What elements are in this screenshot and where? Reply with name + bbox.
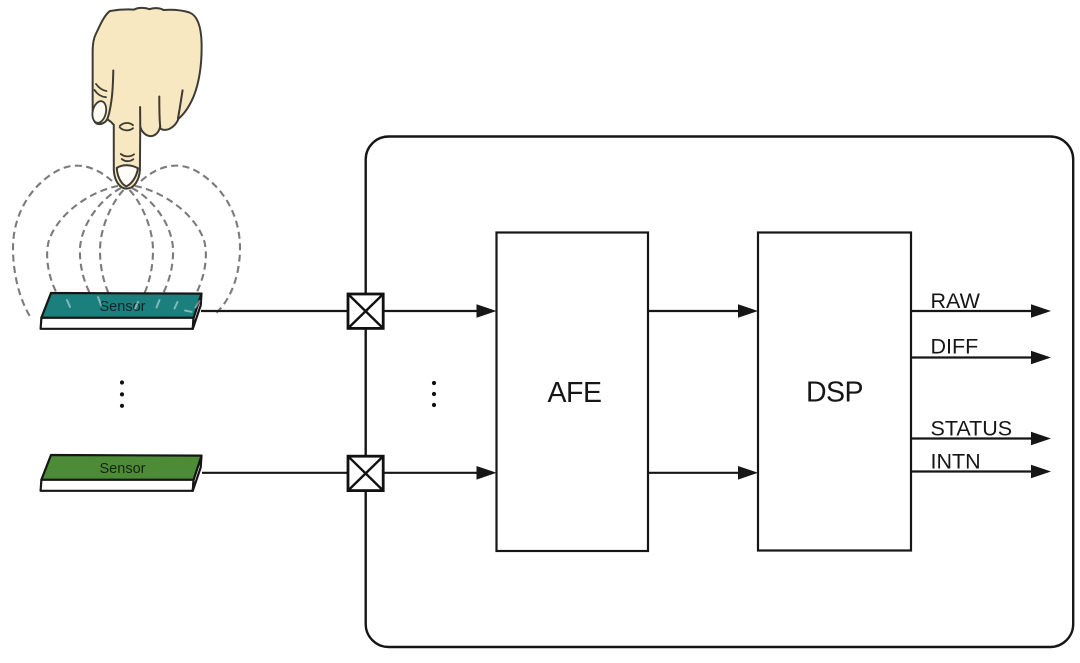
thumb inner edge xyxy=(107,71,113,120)
output INTN (wire + arrow) xyxy=(911,465,1051,479)
svg-text:Sensor: Sensor xyxy=(100,461,146,477)
wire mux X2 to AFE (arrow) xyxy=(383,466,496,480)
finger nail xyxy=(117,165,138,186)
svg-text:DIFF: DIFF xyxy=(931,335,979,359)
svg-text:RAW: RAW xyxy=(931,289,981,313)
wire AFE to DSP bottom (arrow) xyxy=(648,466,758,480)
block DSP xyxy=(758,233,911,551)
svg-text:STATUS: STATUS xyxy=(931,417,1013,441)
wire AFE to DSP top (arrow) xyxy=(648,304,758,318)
field line arc L2 xyxy=(80,188,121,308)
svg-text:AFE: AFE xyxy=(548,377,602,409)
wire sensor S2 to mux X2 xyxy=(202,472,348,474)
ring curled finger line xyxy=(178,90,183,118)
mux switch X2 xyxy=(348,456,383,490)
chip boundary (rounded rect) xyxy=(366,137,1073,648)
block AFE xyxy=(497,233,649,552)
index finger lower creases xyxy=(121,154,134,161)
middle curled finger line xyxy=(159,97,160,127)
field line arc R3 xyxy=(135,186,206,310)
thumb nail xyxy=(90,100,108,124)
output DIFF (wire + arrow) xyxy=(911,351,1051,365)
field line arc R1 xyxy=(130,190,154,300)
field line arc L3 xyxy=(47,186,118,310)
wire mux X1 to AFE (arrow) xyxy=(383,304,496,318)
output STATUS (wire + arrow) xyxy=(911,432,1051,446)
output RAW (wire + arrow) xyxy=(911,304,1051,318)
field line arc L1 xyxy=(100,190,124,300)
light dashes over sensor S1 xyxy=(67,297,200,312)
thumb knuckle creases xyxy=(95,84,107,97)
sensor S1 (teal pad) xyxy=(41,293,202,329)
field line arc R4 xyxy=(141,166,240,314)
index finger mid creases xyxy=(120,123,133,130)
vertical dots between sensors xyxy=(120,380,124,408)
svg-text:INTN: INTN xyxy=(931,450,981,474)
sensor S2 (green pad) xyxy=(41,455,202,491)
mux switch X1 xyxy=(348,294,383,328)
field line arc R2 xyxy=(132,188,173,308)
wire sensor S1 to mux X1 xyxy=(201,310,348,312)
svg-text:DSP: DSP xyxy=(806,377,863,409)
hand (fist with pointing finger) xyxy=(93,8,202,189)
index finger right edge upper xyxy=(139,107,141,127)
vertical dots between mux switches xyxy=(432,381,436,407)
field line arc L4 xyxy=(13,166,112,317)
